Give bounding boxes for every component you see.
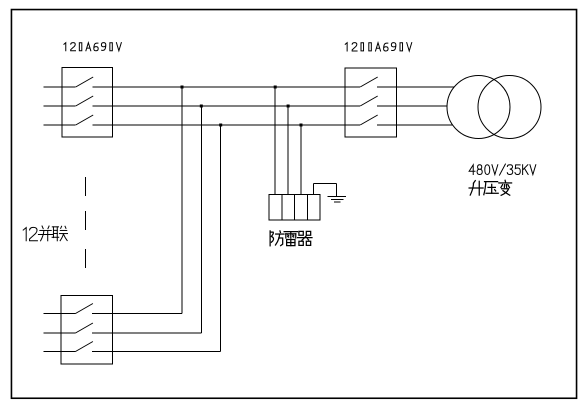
transformer T1 secondary winding circle xyxy=(478,76,541,139)
transformer T1 primary winding circle xyxy=(447,76,510,139)
wire ground lead down xyxy=(336,183,338,196)
wire phase B from S2 to transformer xyxy=(377,105,447,107)
wire phase B stub left of S3 xyxy=(44,332,76,334)
node junction phase A to parallel string xyxy=(181,86,184,89)
wire phase B from S1 to S2 xyxy=(92,105,360,107)
S3 pole blade phase A xyxy=(76,304,93,314)
S1 pole blade phase C xyxy=(76,115,94,125)
node junction phase A to arrester xyxy=(274,86,277,89)
label 12并联 (12 in parallel) xyxy=(23,226,67,241)
S3 pole blade phase B xyxy=(76,323,93,333)
node junction phase B to parallel string xyxy=(200,105,203,108)
S2 pole blade phase A xyxy=(360,77,378,87)
wire phase A from S2 to transformer xyxy=(377,86,454,88)
node junction phase C to arrester xyxy=(300,124,303,127)
wire arrester lead phase C xyxy=(300,125,302,194)
wire phase A from S1 to S2 xyxy=(92,86,360,88)
ground symbol xyxy=(328,196,346,201)
dashed line parallel strings indication xyxy=(85,177,87,268)
wire phase A stub left of S1 xyxy=(44,86,76,88)
wire ground lead horizontal xyxy=(314,182,337,184)
disconnect switch S1 box xyxy=(62,68,113,138)
disconnect switch S2 box xyxy=(345,68,397,137)
label 防雷器 (surge arrester) xyxy=(270,231,312,246)
label 升压变 (step-up transformer) xyxy=(469,180,511,195)
label 480V/35KV xyxy=(469,164,536,175)
S1 pole blade phase B xyxy=(76,96,94,106)
wire vertical drop phase A to bottom switch xyxy=(181,87,183,314)
surge arrester cell divider 1 xyxy=(281,194,283,220)
S2 pole blade phase B xyxy=(360,96,378,106)
wire phase C from S3 to riser xyxy=(92,351,221,353)
wire phase A stub left of S3 xyxy=(44,313,76,315)
label 120A690V for S1 xyxy=(64,43,121,51)
surge arrester cell divider 3 xyxy=(306,194,308,220)
wire vertical drop phase B to bottom switch xyxy=(200,106,202,333)
wire phase B stub left of S1 xyxy=(44,105,76,107)
wire phase B from S3 to riser xyxy=(92,332,201,334)
disconnect switch S3 box (parallel string) xyxy=(61,295,113,364)
wire phase C from S1 to S2 xyxy=(92,124,360,126)
wire phase C stub left of S3 xyxy=(44,351,76,353)
node junction phase B to arrester xyxy=(287,105,290,108)
wire phase C from S2 to transformer xyxy=(377,124,453,126)
S2 pole blade phase C xyxy=(360,115,378,125)
wire phase A from S3 to riser xyxy=(92,313,182,315)
S3 pole blade phase C xyxy=(76,342,93,352)
wire phase C stub left of S1 xyxy=(44,124,76,126)
wire vertical drop phase C to bottom switch xyxy=(220,125,222,352)
wire arrester lead phase B xyxy=(287,106,289,194)
surge arrester cell divider 2 xyxy=(294,194,296,220)
surge arrester FV box xyxy=(269,194,320,220)
wire arrester lead phase A xyxy=(274,87,276,194)
wire ground lead up from arrester cell 4 xyxy=(313,183,315,194)
node junction phase C to parallel string xyxy=(219,124,222,127)
label 1200A690V for S2 xyxy=(345,43,411,51)
S1 pole blade phase A xyxy=(76,77,94,87)
